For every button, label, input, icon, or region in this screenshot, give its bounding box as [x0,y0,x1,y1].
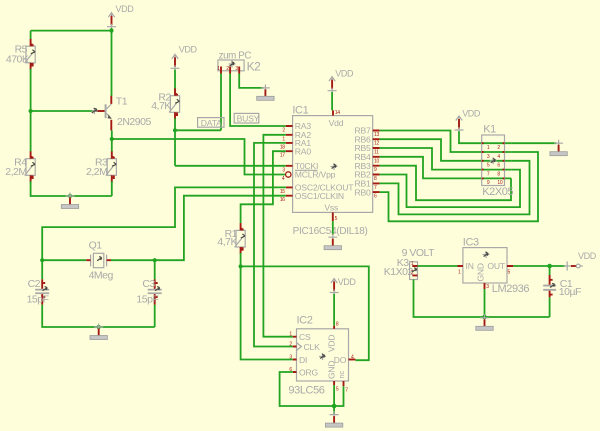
connector K1 K2X05 body [482,123,514,198]
wire DO loop: junction right, down to IC2 DO [241,266,369,360]
ground symbol (crystal rail) [90,324,107,340]
svg-text:2,2M: 2,2M [5,166,26,178]
svg-text:2N2905: 2N2905 [117,116,151,128]
svg-text:VDD: VDD [578,251,597,261]
svg-text:10µF: 10µF [559,286,581,298]
svg-text:OUT: OUT [487,261,505,271]
wire K2 pin3 to ground [239,74,263,88]
wire DATA horizontal to K2 pin1 column [175,129,221,131]
power VDD symbol (above IC2) [330,277,357,296]
svg-text:15: 15 [280,189,285,195]
power VDD symbol (above R2) [171,44,198,71]
wire crystal right pin [111,259,155,261]
K1 pin tick marks [482,143,505,178]
svg-text:nc: nc [337,371,346,379]
wire CLK net: IC1 RA1 to IC2 CLK [254,143,293,347]
junction ground rail [68,194,72,198]
wire C1 bottom to ground rail [549,297,551,317]
origin cursor of C2 [43,287,48,291]
origin cursor of C1 [550,283,555,287]
wire VDD1 stem to rail corner [111,28,113,31]
resistor R5 [6,39,35,70]
svg-text:T1: T1 [116,96,128,108]
svg-text:4Meg: 4Meg [89,270,114,282]
power VDD symbol (above IC1 Vdd) [328,69,354,95]
svg-text:K1X02: K1X02 [384,266,414,278]
wire crystal left pin [42,259,86,261]
svg-text:VDD: VDD [462,109,481,119]
svg-text:IN: IN [466,261,474,271]
IC2 pin numbers [289,322,354,394]
wire RB3 wrap to K1 pin10 [380,166,511,201]
svg-text:4,7K: 4,7K [217,236,237,248]
svg-text:2,2M: 2,2M [86,166,107,178]
svg-text:Vss: Vss [324,202,338,212]
origin cursor of Q1 [97,257,102,261]
wire K1 pin2 to ground [511,142,556,144]
wire CS net: IC1 RA2 to IC2 CS [263,135,292,337]
wire DATA drop to T0CKI row [174,130,176,166]
wire IC1 Vss to ground [332,221,334,235]
svg-text:12: 12 [374,141,379,147]
svg-text:93LC56: 93LC56 [288,385,324,397]
label BUSY [234,113,259,123]
wire K3 pin2 down to ground rail [414,280,550,318]
wire K2 pin1 down to DATA [220,74,222,131]
origin cursor of IC1 [331,163,338,170]
IC IC3: LM2936 regulator body [463,236,530,295]
wire C3 top drop [154,260,156,279]
wire C3 bottom to gnd rail [154,305,156,327]
wire IC3 GND down to rail [484,289,486,316]
ground symbol (K1 pin2) [550,140,567,156]
IC U1: PIC16C54 IC1 body [292,104,372,237]
junction crystal right node [153,258,157,262]
svg-text:CS: CS [299,332,311,342]
wire IC2 ORG loop to ground net [280,372,335,406]
IC2 top pin stub VDD [333,326,335,329]
wire junction down to R3 top [111,139,113,152]
svg-text:14: 14 [335,110,340,116]
svg-text:17: 17 [280,153,285,159]
junction T1 base wire on left rail [29,109,33,113]
svg-text:10: 10 [497,180,502,186]
resistor R1 [217,223,245,254]
wire T1 collector from VDD rail [111,31,113,96]
connector K3 K1X02 (9 VOLT input) [384,247,435,280]
svg-text:GND: GND [327,361,337,379]
wire C2 bottom to gnd rail [42,305,155,327]
wire K3 pin1 to IC3 IN [418,265,458,267]
wire BUSY: K2 pin2 down and right to RA3 [230,74,286,127]
wire RB4 to K1 pin9 [380,157,512,179]
junction at VDD / T1 collector rail [109,29,113,33]
svg-text:DATA: DATA [201,118,222,128]
svg-text:DI: DI [299,355,307,365]
svg-text:Q1: Q1 [89,239,103,251]
IC2 bottom pin stubs GND and NC [334,381,343,386]
origin cursor of K1 [490,157,497,164]
wire IC3 OUT to VDD node [513,265,565,267]
wire DI drop and into IC2 DI [241,266,293,359]
wire IC2 GND down to ground [333,385,335,414]
wire RB5 to K1 pin7 [380,148,512,170]
origin cursor of IC3 [483,251,490,258]
wire R1 bottom to DI junction [240,253,242,266]
IC1 left pin stubs [286,126,293,196]
ground symbol (IC1 Vss) [324,234,341,250]
svg-text:VDD: VDD [116,4,135,14]
origin cursor of IC2 [319,353,326,360]
wire R5 bottom to R4 top [30,69,32,152]
wire R2 bottom to DATA junction [174,118,176,130]
svg-text:C2: C2 [28,278,41,290]
IC1 MCLR inversion bubble [286,172,291,177]
IC1 right pin numbers [374,132,379,200]
origin cursor of K2 [229,61,236,68]
wire C1 top from OUT junction [549,266,551,275]
svg-text:IC3: IC3 [463,236,479,248]
IC3 pin numbers [458,270,511,291]
svg-text:K2: K2 [247,59,262,73]
svg-text:C3: C3 [142,278,155,290]
svg-text:4,7K: 4,7K [151,100,171,112]
svg-text:IC1: IC1 [292,104,308,116]
wire RB7 to K1 pin3 [380,131,512,153]
junction IC3 GND on rail [482,315,487,320]
wire RB0 wrap to K1 pin4 [380,152,538,221]
IC1 pin name MCLR/Vpp with overbar [295,170,336,180]
svg-text:MCLR/Vpp: MCLR/Vpp [295,170,336,180]
svg-text:11: 11 [374,150,379,156]
wire VDD4 to K1 pin1 [459,131,511,143]
ground symbol (IC3 GND rail) [476,314,493,330]
svg-text:VDD: VDD [335,69,354,79]
junction ORG/NC/GND node [332,404,337,409]
wire VDD2 to R2 top [174,70,176,90]
wire IC2 NC pin loop to ground net [334,386,343,406]
IC2 pin name CLK with clock wedge [297,342,321,352]
transistor T1 2N2905 [92,96,152,131]
ground symbol (left bottom rail) [61,193,78,209]
power VDD symbol (K1 pin1) [455,109,481,134]
svg-text:13: 13 [374,132,379,138]
wire OSC2 net: IC1 to crystal left / C2 [42,187,286,279]
wire T1 emitter down to junction [111,130,113,139]
K1 even pin numbers [497,145,502,186]
IC1 right pin stubs [373,131,380,193]
svg-text:VDD: VDD [338,277,357,287]
ground symbol (K2 pin3) [257,85,274,101]
resistor R4 [5,151,35,182]
IC1 top Vdd pin stub [332,110,334,115]
wire top rail from R5 column to T1 column [31,30,112,32]
ground symbol (IC2 GND) [325,411,342,427]
crystal Q1 4Meg [86,239,113,281]
capacitor C3 15pF [136,278,161,305]
junction crystal left node [40,258,44,262]
svg-text:OSC1/CLKIN: OSC1/CLKIN [295,191,344,201]
wire RB6 to K1 pin5 [380,139,512,161]
junction T1 emitter / R3 / MCLR net [110,137,114,141]
svg-text:16: 16 [280,197,285,203]
wire R3 bottom to ground rail [111,181,113,196]
svg-text:18: 18 [280,144,285,150]
IC1 bottom Vss pin stub [332,212,334,221]
svg-text:470K: 470K [6,54,29,66]
resistor R2 [151,88,179,119]
K1 odd pin numbers [487,145,490,186]
junction DATA net at R2 [173,128,177,132]
wire T0CKI horizontal into IC1 [175,165,286,167]
svg-text:Vdd: Vdd [329,118,344,128]
resistor R3 [86,151,116,182]
capacitor C1 10uF (electrolytic) [543,275,581,298]
IC IC2: 93LC56 body [288,315,348,397]
wire RB1 wrap to K1 pin6 [380,161,530,215]
wire VDD3 to IC1 Vdd pin [331,92,333,110]
label DATA [198,118,224,128]
wire R5 top from rail [30,31,32,39]
svg-text:K1: K1 [483,123,496,135]
wire RA0 net to R1 top [241,151,286,223]
wire VDD5 to IC2 VDD pin [333,294,335,326]
svg-text:BUSY: BUSY [237,114,260,124]
svg-text:RA0: RA0 [295,146,312,156]
power VDD symbol (top left, T1 collector rail) [107,4,134,30]
svg-text:IC2: IC2 [297,315,313,327]
IC1 Vdd/Vss pin numbers [335,110,341,222]
IC3 pin stubs [458,266,514,289]
IC1 left pin numbers [280,128,285,204]
IC2 left pin stubs [293,337,297,372]
wire T1 base from left rail [31,110,93,112]
connector K2 (zum PC) [217,51,261,74]
junction OUT / C1 / VDD [547,264,552,269]
IC2 right pin stub DO [349,359,356,361]
svg-text:PIC16C54(DIL18): PIC16C54(DIL18) [293,226,368,237]
capacitor C2 15pF [27,278,50,305]
junction crystal ground rail [97,325,101,329]
svg-text:GND: GND [476,263,486,281]
svg-text:VDD: VDD [327,335,337,352]
svg-text:CLK: CLK [304,342,321,352]
wire MCLR net from T1 junction to IC1 MCLR [112,139,285,175]
wire RB2 wrap to K1 pin8 [380,170,520,208]
svg-text:K2X05: K2X05 [482,186,513,198]
wire OSC1 net: IC1 to crystal right / C3 [155,196,286,261]
svg-text:ORG: ORG [299,367,318,377]
svg-text:15pF: 15pF [27,293,49,305]
origin cursor of C3 [155,287,160,291]
svg-text:RB0: RB0 [354,187,371,197]
junction R1 bottom / DI / DO [239,264,243,268]
svg-text:10: 10 [374,158,379,164]
wire R4 bottom to ground rail [31,181,112,196]
power VDD symbol (right, rotated) [564,251,597,270]
svg-text:VDD: VDD [179,44,198,54]
origin cursor of K3 [412,268,417,272]
svg-text:LM2936: LM2936 [492,283,530,295]
svg-text:15pF: 15pF [136,293,158,305]
